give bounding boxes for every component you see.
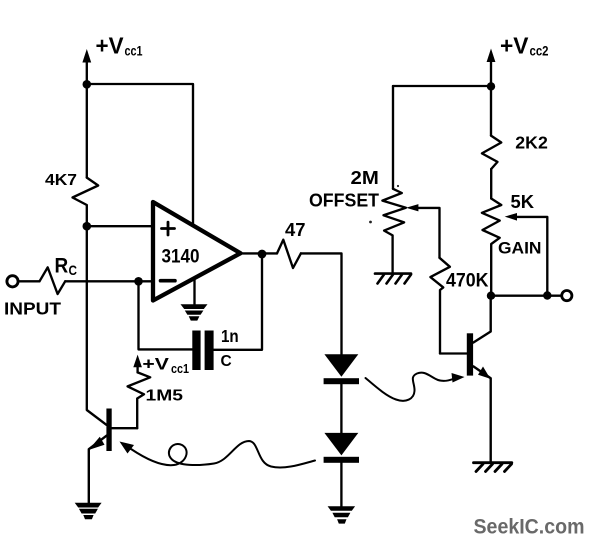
svg-text:cc1: cc1 [171,362,189,376]
svg-text:GAIN: GAIN [498,239,542,258]
svg-text:4K7: 4K7 [45,172,77,189]
ground below Q1 [75,503,102,519]
transistor Q2 emitter arrowhead [478,367,490,379]
annotation arrowhead at Q2 [452,373,465,383]
annotation arrowhead at Q1 [120,442,135,454]
svg-text:OFFSET: OFFSET [309,191,379,211]
svg-text:R: R [55,255,69,278]
annotation arrow to Q1 [131,441,315,467]
capacitor C plate 2 [205,331,214,371]
svg-text:470K: 470K [446,271,489,292]
node C junction dot minus input [134,277,143,286]
supply arrow +Vcc1 second head [133,355,142,368]
wire 2M wiper [417,208,439,258]
wire Rc to op-amp minus input [65,280,153,282]
wire top rail to op-amp power [87,84,193,226]
supply arrow +Vcc2 head [487,49,496,63]
resistor 470K [430,258,450,354]
node A junction dot top-left [83,80,92,89]
node F junction dot collector/output [487,292,495,300]
resistor 47 [277,240,301,268]
wire 1M5 to Q1 collector [112,427,138,429]
potentiometer 2M OFFSET [382,189,406,273]
supply arrow +Vcc1 head [82,49,91,63]
svg-text:+V: +V [500,33,529,59]
svg-text:1M5: 1M5 [146,388,184,405]
node G junction dot wiper/output [543,291,551,299]
potentiometer 5K [482,199,501,296]
input terminal circle [7,276,18,287]
ground below diodes [328,506,356,523]
wire 2K2 to 5K [490,169,492,199]
svg-text:+V: +V [96,33,125,59]
svg-text:47: 47 [285,219,306,240]
svg-text:C: C [69,262,78,278]
transistor Q1 base bar [106,409,111,452]
svg-text:INPUT: INPUT [4,299,61,319]
supply arrow +Vcc2 [490,62,492,86]
node B junction dot 4K7 bottom [83,222,92,231]
wire between diodes [340,384,342,433]
wire diodes to ground [340,463,342,507]
ground below op-amp [181,304,208,320]
op-amp minus symbol [161,279,176,283]
wire left rail down to 4K7 [86,84,88,177]
wire Vcc2 down to 2K2 [490,86,492,135]
svg-text:+V: +V [142,355,169,374]
diode D2 [324,433,358,456]
wire feedback right leg [214,254,262,350]
wire output row [491,295,562,297]
resistor 2K2 [482,136,501,169]
transistor Q1 emitter arrowhead [89,437,105,450]
supply arrow +Vcc1 second shaft [136,364,138,372]
diode D1 cathode bar [324,378,359,384]
speck near offset pot [369,221,372,224]
resistor 1M5 [128,372,151,428]
svg-text:3140: 3140 [162,246,200,268]
wire 470K to Q2 base [440,352,467,354]
output terminal circle [562,291,572,301]
resistor 4K7 [73,178,99,227]
potentiometer 5K wiper arrowhead [505,213,517,221]
op-amp ground stem [193,278,195,305]
transistor Q2 base bar [467,333,473,375]
wire to op-amp plus input [87,225,153,227]
svg-text:cc1: cc1 [125,44,143,59]
wire input to Rc [18,280,39,282]
transistor Q2 emitter [473,366,490,461]
svg-text:C: C [221,353,232,370]
op-amp U1 triangle [153,202,241,301]
wire feedback left leg [139,281,193,349]
svg-text:2M: 2M [351,168,379,188]
wire op-amp output [241,252,278,254]
supply arrow +Vcc1 [86,60,88,84]
wire offset branch down [392,86,394,189]
transistor Q1 emitter [89,436,107,503]
svg-text:cc2: cc2 [530,44,549,59]
svg-text:SeekIC.com: SeekIC.com [474,516,585,539]
svg-text:1n: 1n [221,326,239,346]
wire top-right rail [393,85,491,87]
op-amp plus symbol [162,222,175,235]
svg-text:5K: 5K [511,192,535,212]
diode D2 cathode bar [324,457,359,463]
potentiometer 2M wiper arrowhead [406,204,418,211]
svg-text:2K2: 2K2 [515,133,548,153]
transistor Q2 collector [473,296,490,343]
wire 47 to diodes [301,253,342,354]
wire left rail down to Q1 base [87,226,107,425]
ground below offset pot [375,274,411,284]
node D junction dot output [258,250,267,259]
wire 5K wiper [516,217,547,296]
node E junction dot Vcc2 [487,82,495,90]
speck near offset pot top [397,185,399,187]
capacitor C plate 1 [192,331,200,371]
annotation arrow to Q2 [366,373,454,401]
ground below Q2 [474,463,512,472]
resistor Rc [40,267,66,294]
diode D1 [324,354,358,377]
